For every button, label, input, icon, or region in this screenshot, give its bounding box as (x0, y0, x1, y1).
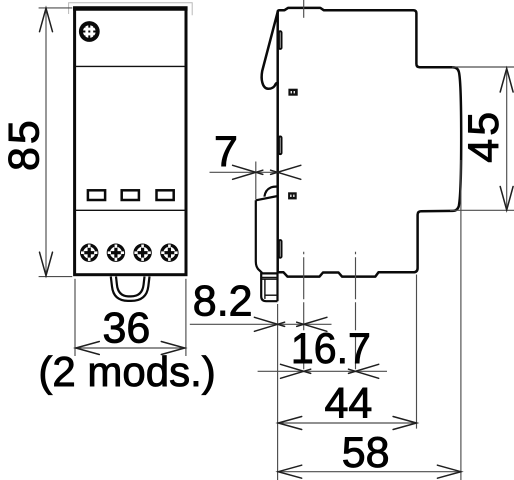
centerline A bottom (303, 252, 305, 373)
window 2 (122, 190, 139, 200)
terminal slot 2 (279, 137, 282, 155)
dim 36 line (76, 347, 185, 349)
top screw head (79, 21, 100, 42)
dim 36 arrow left (76, 342, 100, 355)
dim 58 arrow right (437, 465, 461, 478)
dim 45 extension bottom (450, 209, 514, 211)
front edge extension line (277, 304, 279, 480)
terminal slot 3 (279, 240, 282, 258)
dim 45 arrow down (500, 187, 513, 211)
side view outline (278, 8, 462, 277)
front view faint top outline (69, 3, 193, 16)
dim 7 extension (255, 162, 257, 200)
rear foot right edge (276, 273, 278, 301)
dim 45 extension top (452, 66, 514, 68)
dim 7 arrow right (271, 165, 301, 179)
dim 16.7 arrow left (281, 364, 311, 378)
dim 44 line (278, 422, 416, 424)
marker label 2 (288, 192, 297, 199)
dim 8.2 line (190, 323, 332, 325)
dim 7 arrow left (233, 165, 263, 179)
window 3 (157, 190, 174, 200)
dim 85 extension bottom (39, 276, 73, 278)
DIN clip U inner (116, 277, 145, 297)
dim 58 extension right (460, 160, 462, 480)
marker label 1 (288, 89, 297, 96)
dim 16.7 line (258, 370, 387, 372)
svg-text:44: 44 (324, 379, 372, 427)
dim 36 extension left (74, 279, 76, 356)
dim 8.2 arrow left (254, 317, 284, 331)
dim 85 arrow down (40, 252, 53, 276)
rear foot inner lines (261, 278, 277, 299)
svg-text:7: 7 (214, 128, 238, 176)
centerline B (355, 252, 357, 373)
front view body outline (75, 8, 186, 275)
dim 16.7 arrow right (349, 364, 379, 378)
dim 44 arrow right (393, 417, 417, 430)
rail slider front edge (256, 200, 262, 273)
dim 85 extension top (39, 7, 73, 9)
rail slider top slant (256, 196, 278, 200)
dim 45 arrow up (500, 69, 513, 93)
terminal screw 4 (160, 244, 178, 262)
rear foot outer (261, 273, 277, 301)
svg-text:16.7: 16.7 (291, 325, 371, 373)
rail slider thumb arc (264, 187, 277, 197)
rear spring clip hook (262, 12, 278, 89)
centerline A top (303, 0, 305, 18)
window 1 (88, 190, 105, 200)
terminal slot 1 (279, 31, 282, 49)
terminal screw 1 (80, 244, 98, 262)
svg-text:(2 mods.): (2 mods.) (38, 348, 215, 395)
dim 85 arrow up (40, 8, 53, 32)
dim 44 extension right (416, 275, 418, 429)
dim 44 arrow left (278, 417, 302, 430)
dim 58 arrow left (278, 465, 302, 478)
dim 58 line (278, 471, 461, 473)
dim 7 line (210, 171, 278, 173)
dim 85 line (45, 8, 47, 276)
DIN clip U outer (111, 277, 150, 301)
svg-text:58: 58 (342, 429, 390, 477)
dim 36 extension right (185, 279, 187, 356)
svg-text:36: 36 (102, 304, 150, 352)
dim 45 line (506, 68, 508, 210)
terminal screw 3 (133, 244, 151, 262)
svg-text:8.2: 8.2 (193, 278, 253, 326)
front view seam line upper (76, 65, 185, 67)
svg-text:45: 45 (460, 109, 508, 163)
dim 8.2 arrow right (297, 317, 327, 331)
dim 36 arrow right (161, 342, 185, 355)
terminal screw 2 (107, 244, 125, 262)
front view seam line lower (76, 209, 185, 211)
svg-text:85: 85 (1, 117, 49, 171)
